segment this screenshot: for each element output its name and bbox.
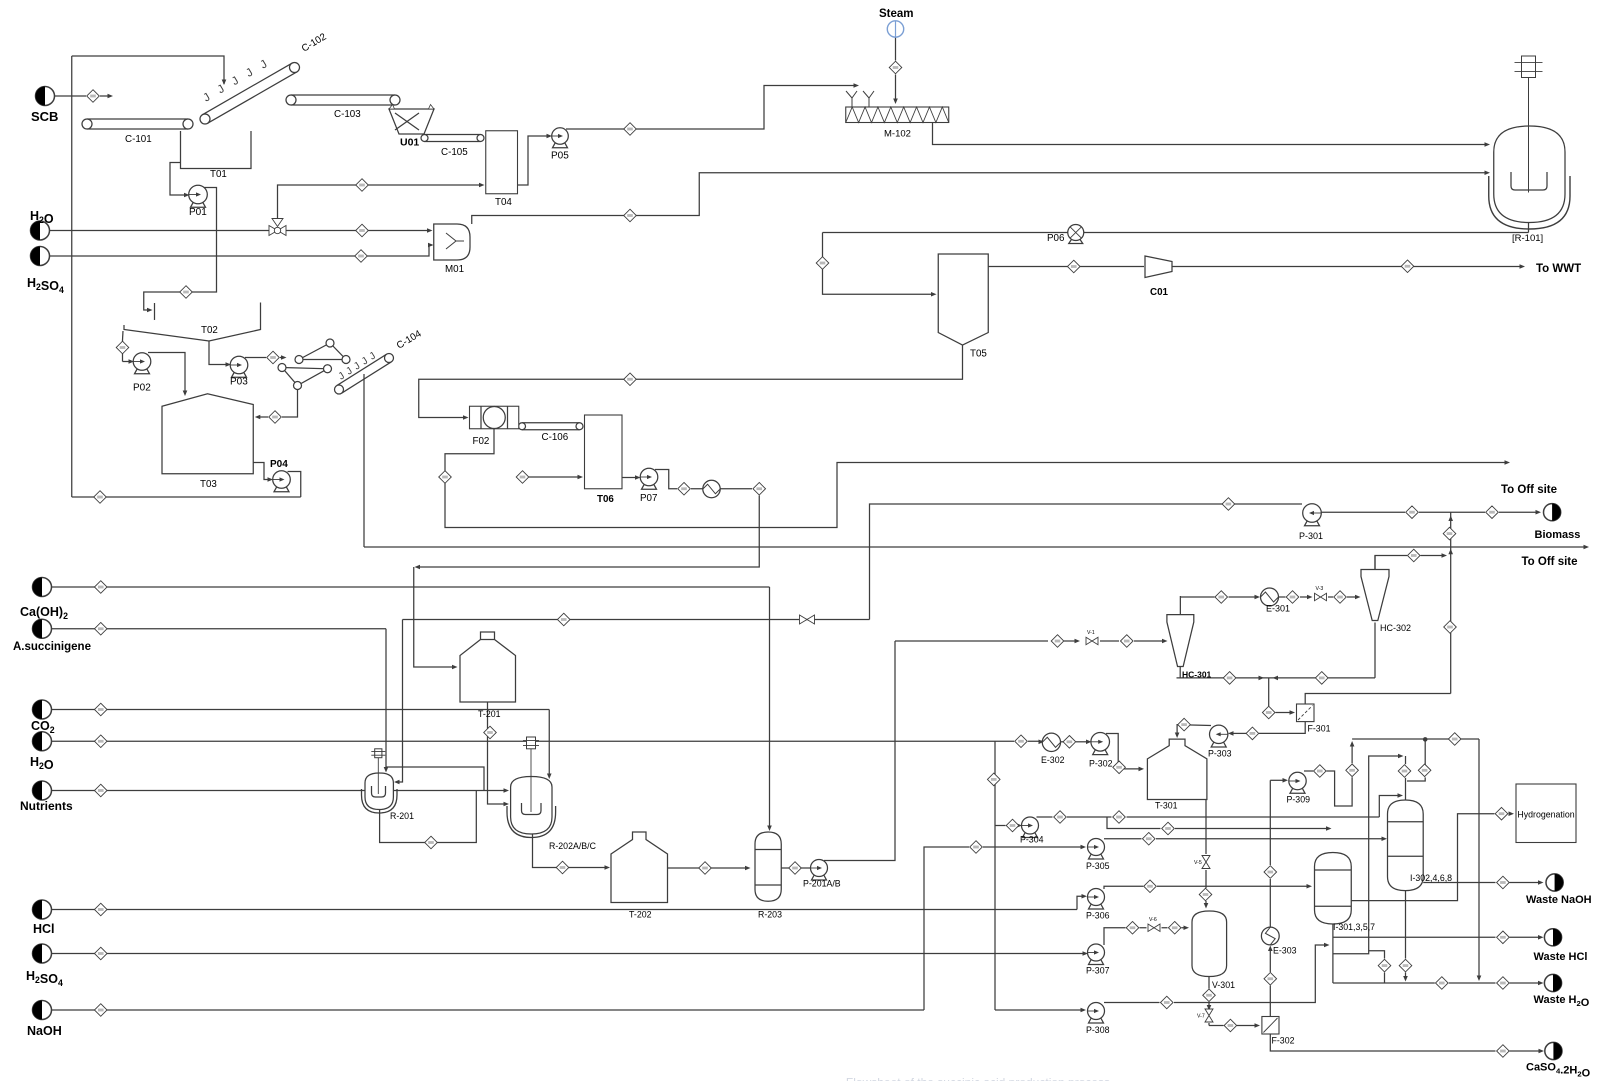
svg-text:V-301: V-301 — [1212, 980, 1235, 990]
svg-text:C-101: C-101 — [125, 134, 152, 145]
svg-text:SCB: SCB — [31, 109, 58, 124]
svg-text:P-304: P-304 — [1020, 835, 1044, 845]
svg-text:F-301: F-301 — [1308, 724, 1331, 734]
svg-text:T04: T04 — [495, 197, 512, 208]
svg-text:Hydrogenation: Hydrogenation — [1517, 810, 1574, 820]
svg-text:I-301,3,5,7: I-301,3,5,7 — [1333, 922, 1375, 932]
svg-text:To Off site: To Off site — [1501, 484, 1557, 496]
svg-text:T-202: T-202 — [629, 910, 652, 920]
svg-text:T01: T01 — [210, 169, 227, 180]
svg-text:R-202A/B/C: R-202A/B/C — [549, 841, 597, 851]
svg-text:I-302,4,6,8: I-302,4,6,8 — [1410, 873, 1452, 883]
svg-text:Ca(OH)2: Ca(OH)2 — [20, 605, 68, 621]
svg-text:Waste HCl: Waste HCl — [1534, 951, 1588, 963]
svg-text:P-302: P-302 — [1089, 759, 1113, 769]
svg-text:P-305: P-305 — [1086, 861, 1110, 871]
svg-text:To Off site: To Off site — [1522, 556, 1578, 568]
svg-text:HC-302: HC-302 — [1380, 623, 1411, 633]
svg-text:T03: T03 — [200, 479, 217, 490]
svg-text:C-103: C-103 — [334, 109, 361, 120]
svg-text:P07: P07 — [640, 493, 657, 504]
svg-text:M01: M01 — [445, 264, 464, 275]
svg-text:[R-101]: [R-101] — [1512, 233, 1543, 244]
svg-text:P-307: P-307 — [1086, 966, 1110, 976]
svg-text:P-301: P-301 — [1299, 531, 1323, 541]
svg-text:C01: C01 — [1150, 287, 1169, 298]
svg-text:P01: P01 — [189, 207, 207, 218]
svg-text:V-1: V-1 — [1087, 630, 1095, 636]
svg-text:P02: P02 — [133, 383, 151, 394]
svg-text:P-303: P-303 — [1208, 749, 1232, 759]
svg-text:T-301: T-301 — [1155, 801, 1178, 811]
svg-text:R-203: R-203 — [758, 910, 782, 920]
svg-text:HCl: HCl — [33, 922, 55, 936]
svg-text:P04: P04 — [270, 459, 288, 470]
svg-text:E-301: E-301 — [1266, 604, 1290, 614]
svg-text:P-201A/B: P-201A/B — [803, 879, 841, 889]
svg-text:V-5: V-5 — [1194, 860, 1202, 866]
svg-text:A.succinigene: A.succinigene — [13, 641, 91, 653]
svg-text:P-308: P-308 — [1086, 1025, 1110, 1035]
svg-text:Nutrients: Nutrients — [20, 799, 73, 813]
svg-text:F02: F02 — [473, 436, 490, 447]
svg-text:Biomass: Biomass — [1535, 529, 1581, 541]
svg-text:T-201: T-201 — [478, 709, 501, 719]
svg-text:P-306: P-306 — [1086, 911, 1110, 921]
svg-text:E-303: E-303 — [1273, 946, 1297, 956]
svg-text:M-102: M-102 — [884, 129, 911, 140]
svg-text:P-309: P-309 — [1287, 795, 1311, 805]
svg-text:E-302: E-302 — [1041, 755, 1065, 765]
svg-text:Waste NaOH: Waste NaOH — [1526, 894, 1592, 906]
svg-text:C-105: C-105 — [441, 147, 468, 158]
svg-text:T05: T05 — [970, 349, 987, 360]
svg-text:R-201: R-201 — [390, 811, 414, 821]
svg-text:P05: P05 — [551, 151, 569, 162]
svg-text:V-6: V-6 — [1149, 917, 1157, 923]
svg-text:T02: T02 — [201, 325, 218, 336]
svg-text:V-3: V-3 — [1316, 586, 1324, 592]
svg-text:P06: P06 — [1047, 233, 1065, 244]
svg-text:U01: U01 — [400, 137, 419, 149]
svg-text:P03: P03 — [230, 377, 248, 388]
svg-text:To WWT: To WWT — [1536, 263, 1581, 275]
svg-text:HC-301: HC-301 — [1182, 670, 1212, 680]
svg-text:V-7: V-7 — [1197, 1014, 1205, 1020]
svg-text:NaOH: NaOH — [27, 1024, 62, 1038]
svg-text:Flowsheet of the succinic acid: Flowsheet of the succinic acid productio… — [846, 1076, 1110, 1081]
svg-text:C-106: C-106 — [542, 432, 569, 443]
svg-text:Steam: Steam — [879, 8, 914, 20]
svg-text:T06: T06 — [597, 494, 614, 505]
svg-text:F-302: F-302 — [1272, 1036, 1295, 1046]
